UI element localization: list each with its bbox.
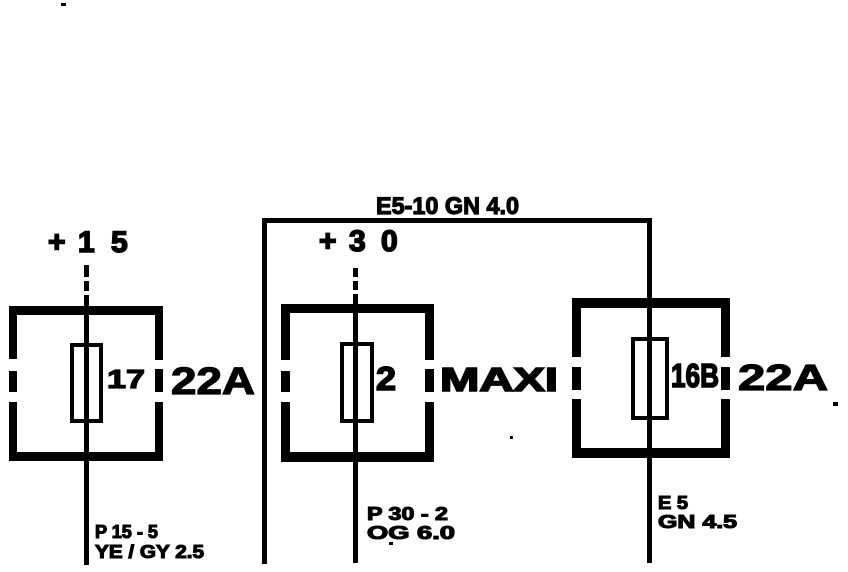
fuse number 2 [376,360,396,397]
node +30 label [319,225,398,258]
svg-text:2: 2 [376,360,396,397]
net label E5-10 GN 4.0 [376,193,519,220]
svg-text:22A: 22A [171,361,255,403]
wire dashed lead from +30 to fuse 2 [353,268,358,290]
node +15 label [48,226,128,259]
fuse element F16B [633,339,667,418]
wire E5-10 left branch down [262,218,267,564]
svg-text:E5-10 GN 4.0: E5-10 GN 4.0 [376,193,519,220]
fuse rating 22A [171,361,255,403]
wire dashed lead from +15 to fuse 17 [84,265,89,291]
fuse element F17 [72,345,101,421]
fuse element F2 [342,344,372,421]
wire label E5 / GN 4.5 [658,493,737,532]
svg-text:16B: 16B [671,357,719,394]
svg-text:+30: +30 [319,225,398,258]
speck below OG [389,542,393,545]
wire vertical through fuse 16B [647,218,652,563]
wire vertical through fuse 17 [84,295,89,565]
fuse number 16B [671,357,719,394]
wire label P 30-2 / OG 6.0 [367,504,455,543]
svg-text:GN 4.5: GN 4.5 [658,512,737,532]
svg-text:OG 6.0: OG 6.0 [367,523,455,543]
wire vertical through fuse 2 [353,294,358,563]
svg-text:E 5: E 5 [658,493,688,513]
speck right [833,402,838,406]
fuse number 17 [107,364,145,394]
svg-text:P 15 - 5: P 15 - 5 [95,522,158,542]
wire label P 15-5 / YE/GY 2.5 [95,522,204,562]
fuse box 17 dashed border [9,306,163,461]
svg-text:22A: 22A [738,357,828,398]
speck below MAXI [510,436,513,439]
fuse box 16B dashed border [572,298,730,458]
speck top left [61,3,66,6]
svg-text:P 30 - 2: P 30 - 2 [367,504,448,524]
fuse rating MAXI [440,361,558,398]
svg-text:MAXI: MAXI [440,361,558,398]
fuse box 2 dashed border [281,304,434,462]
svg-text:+15: +15 [48,226,128,259]
wire E5-10 horizontal bus [262,218,652,223]
svg-text:17: 17 [107,364,145,394]
svg-text:YE / GY 2.5: YE / GY 2.5 [95,542,204,562]
fuse rating 22A right [738,357,828,398]
